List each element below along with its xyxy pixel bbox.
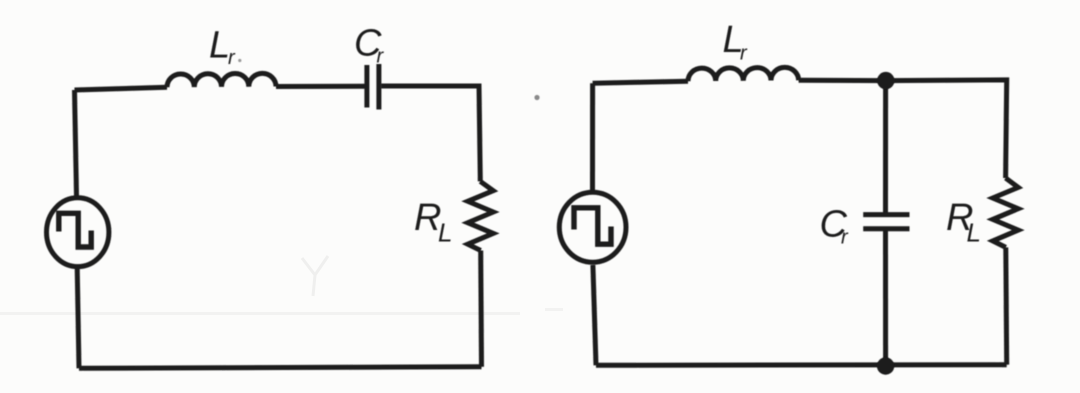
svg-text:L: L <box>967 218 981 248</box>
wire: resistor RL down to bottom-right corner (left circuit) <box>478 251 484 367</box>
source V2 (square-wave voltage source, right circuit) <box>559 192 626 262</box>
capacitor C2 top plate (right circuit Cr) <box>863 212 909 217</box>
wire: capacitor Cr to top-right corner and down to resistor RL (left circuit) <box>381 86 480 181</box>
wire: right circuit, V2 top terminal up to top-left corner <box>590 83 595 190</box>
capacitor C1 right plate (left circuit Cr) <box>376 64 381 110</box>
capacitor C1 left plate (left circuit Cr) <box>364 65 369 108</box>
node: bottom junction of Cr branch (right circuit) <box>877 357 894 374</box>
wire: Cr branch, top junction down to top plate (right circuit) <box>883 81 888 215</box>
inductor Lr (right circuit) <box>688 67 799 81</box>
source V1 square-wave glyph <box>59 213 91 247</box>
source V1 (square-wave voltage source, left circuit) <box>46 198 108 267</box>
resistor RL (right circuit) zigzag <box>993 178 1018 247</box>
node: top junction of Lr / Cr / RL (right circuit) <box>877 72 894 89</box>
faint scan smudge horizontal band <box>0 312 520 315</box>
wire: left circuit, V1 top terminal up to top-left corner <box>75 90 77 196</box>
wire: inductor Lr to capacitor Cr (left circuit) <box>276 84 365 89</box>
wire: resistor RL down to bottom-right corner (right circuit) <box>1003 247 1009 364</box>
wire: inductor Lr to top junction node (right circuit) <box>799 78 886 83</box>
capacitor C2 bottom plate (right circuit Cr) <box>863 226 909 231</box>
stray speck after left Lr label <box>238 59 241 62</box>
wire: right circuit top, top-left corner to inductor Lr <box>593 81 688 83</box>
faint scan smudge Y mark <box>302 256 328 296</box>
source V2 square-wave glyph <box>574 208 611 244</box>
svg-text:L: L <box>209 25 230 67</box>
wire: Cr branch, bottom plate down to bottom junction (right circuit) <box>883 229 888 366</box>
stray ink dot between circuits <box>534 95 539 100</box>
svg-text:L: L <box>438 218 452 248</box>
wire: bottom-left corner up to V1 bottom terminal (left circuit) <box>77 268 79 368</box>
resistor RL (left circuit) zigzag <box>468 181 493 250</box>
inductor Lr (left circuit) <box>167 73 276 87</box>
wire: bottom of left circuit <box>79 367 482 369</box>
wire: top junction node to top-right corner and down to resistor RL (right circuit) <box>886 80 1007 178</box>
wire: bottom of right circuit <box>596 362 1007 368</box>
wire: bottom-left corner up to V2 bottom terminal (right circuit) <box>593 265 596 365</box>
wire: left circuit top, top-left corner to inductor Lr <box>75 87 168 90</box>
faint scan smudge near right circuit <box>545 308 563 311</box>
